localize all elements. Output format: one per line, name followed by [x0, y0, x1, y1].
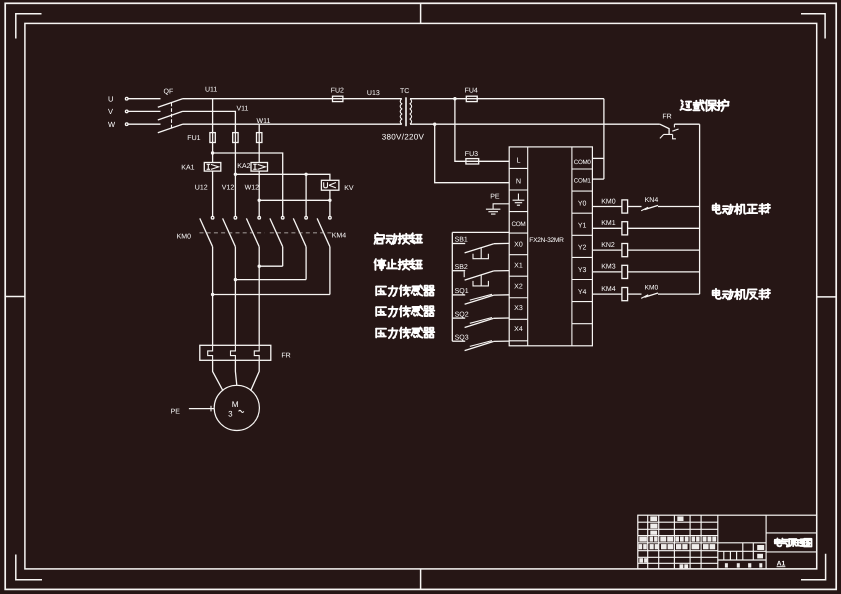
node FU3 branch [453, 97, 456, 100]
label 电动机正转 [713, 204, 770, 215]
contactor coil KN2 [622, 244, 628, 257]
svg-text:PE: PE [171, 408, 181, 415]
node KM4 pole2 tap [304, 173, 307, 176]
svg-text:COM1: COM1 [574, 177, 592, 184]
current relay KA1 [204, 163, 221, 172]
output bus vertical [699, 124, 701, 294]
svg-text:X1: X1 [514, 263, 523, 270]
svg-text:Y4: Y4 [578, 289, 587, 296]
label 压力传感器 [376, 328, 434, 339]
svg-text:SB2: SB2 [455, 264, 468, 271]
NC contact KM0 (interlock on Y4) [628, 293, 642, 295]
wire Y0 output [592, 206, 622, 208]
wire KM4 pole2 down [305, 247, 307, 280]
svg-text:V: V [108, 107, 113, 116]
fuse FU1 a [210, 133, 215, 143]
svg-text:FU3: FU3 [465, 151, 478, 158]
svg-text:Y1: Y1 [578, 223, 587, 230]
svg-text:QF: QF [164, 88, 174, 95]
svg-text:KM1: KM1 [601, 220, 616, 227]
fuse FU3 [466, 159, 479, 164]
node KV bottom [328, 199, 331, 202]
wire PE to motor [189, 408, 214, 410]
wire W to QF [128, 123, 161, 125]
wire KA2 down [258, 171, 260, 216]
svg-text:Y0: Y0 [578, 201, 587, 208]
svg-text:KN2: KN2 [601, 242, 615, 249]
wire COM to input bus [452, 231, 509, 233]
svg-text:N: N [516, 177, 521, 186]
wire W12 to KV bottom and KM4 pole 3 [259, 199, 330, 201]
svg-text:FX2N-32MR: FX2N-32MR [529, 237, 564, 244]
svg-text:KN4: KN4 [645, 197, 659, 204]
svg-text:V12: V12 [222, 184, 235, 191]
svg-text:KA1: KA1 [181, 165, 194, 172]
svg-text:M: M [232, 400, 239, 409]
svg-text:X4: X4 [514, 326, 523, 333]
label 启动按钮 [374, 233, 422, 244]
svg-text:TC: TC [400, 88, 409, 95]
svg-text:Y2: Y2 [578, 245, 587, 252]
fold mark top-left [16, 14, 42, 39]
svg-text:Y3: Y3 [578, 267, 587, 274]
NC contact KN4 (interlock on Y0) [628, 206, 642, 208]
crossover W to pole1 [259, 265, 283, 267]
centering tick right [817, 296, 837, 298]
label 压力传感器 [376, 285, 434, 296]
wire U to QF [128, 98, 161, 100]
svg-text:SQ3: SQ3 [455, 334, 469, 341]
wire U11 bus [183, 98, 402, 100]
pin earth symbol [513, 194, 525, 206]
svg-text:U12: U12 [195, 184, 208, 191]
contactor coil KM3 [622, 265, 628, 278]
svg-text:3: 3 [228, 410, 233, 419]
current relay KA2 [251, 163, 268, 172]
node N branch [433, 123, 436, 126]
title block small texts [639, 516, 765, 568]
contactor coil KM0 [622, 200, 628, 213]
wire Y4 output [592, 293, 622, 295]
label 过载保护 [680, 100, 728, 111]
svg-text:PE: PE [490, 193, 500, 200]
fold mark bottom-right [801, 554, 826, 580]
svg-text:V11: V11 [237, 106, 249, 113]
fold mark top-right [801, 14, 825, 39]
svg-text:COM: COM [511, 221, 525, 228]
PLC right terminal separators [572, 168, 593, 170]
node V supply terminal [125, 110, 128, 113]
svg-text:W: W [108, 120, 116, 129]
wire COM0 stub [592, 157, 604, 159]
crossover V to pole2 [235, 279, 306, 281]
fuse FU1 b [233, 133, 238, 143]
label 压力传感器 [376, 306, 434, 317]
svg-text:KM4: KM4 [332, 233, 347, 240]
PLC FX2N-32MR body [509, 147, 592, 346]
wire N to PLC [435, 124, 510, 183]
contactor KM4 main contacts [281, 216, 284, 219]
wire secondary N line [410, 123, 660, 125]
switch SQ1 [452, 294, 465, 296]
svg-text:KA2: KA2 [237, 163, 250, 170]
svg-text:KV: KV [344, 185, 354, 192]
node branch U12 [211, 151, 214, 154]
wire branch V12 to KM4 pole 2 and KV [235, 174, 330, 180]
fold mark bottom-left [16, 555, 42, 580]
node branch V12 [234, 173, 237, 176]
label 电动机反转 [713, 289, 770, 300]
voltage relay KV [321, 180, 339, 190]
svg-text:KM3: KM3 [601, 264, 616, 271]
KM0 linkage [200, 232, 265, 234]
wire L to PLC via FU3 [455, 99, 509, 162]
svg-text:380V/220V: 380V/220V [382, 132, 425, 141]
wire FR to motor right [251, 360, 260, 391]
fuse FU1 c [257, 133, 262, 143]
wire FR to output bus [674, 123, 699, 125]
svg-text:W12: W12 [245, 184, 260, 191]
KM4 linkage [270, 232, 335, 234]
centering tick left [5, 296, 25, 298]
title 电气原理图 [775, 538, 812, 546]
wire KM4 pole1 down [282, 247, 284, 267]
svg-text:SQ1: SQ1 [455, 288, 469, 295]
centering tick bottom [420, 569, 422, 590]
wire KM4 pole 3 drop [329, 200, 331, 216]
thermal overload relay FR [200, 345, 271, 360]
wire W11 bus [183, 123, 402, 125]
svg-text:X2: X2 [514, 284, 523, 291]
svg-text:FR: FR [662, 113, 671, 120]
svg-text:L: L [516, 156, 520, 165]
wire KM0 pole2 down [234, 247, 236, 346]
wire V11 [183, 111, 236, 132]
ground PE [486, 204, 509, 214]
svg-text:FU4: FU4 [465, 88, 478, 95]
svg-text:X3: X3 [514, 305, 523, 312]
label 停止按钮 [374, 259, 422, 270]
input bus [451, 232, 453, 341]
title block grid [638, 515, 817, 569]
svg-text:U13: U13 [367, 90, 380, 97]
fuse FU2 [333, 96, 343, 101]
svg-text:SQ2: SQ2 [455, 311, 469, 318]
svg-text:SB1: SB1 [455, 237, 468, 244]
wire W11 drop [258, 124, 260, 162]
wire Y1 output [592, 227, 622, 229]
wire KA1 to KM0 pole 1 [212, 171, 214, 216]
wire KM0 pole1 down [212, 247, 214, 346]
svg-text:COM0: COM0 [574, 159, 592, 166]
wire secondary L line [410, 98, 604, 100]
wire U11 drop [212, 99, 214, 163]
svg-text:U: U [108, 94, 113, 103]
wire V to QF [128, 110, 161, 112]
wire V12 drop [234, 133, 236, 217]
svg-text:X0: X0 [514, 242, 523, 249]
svg-text:W11: W11 [257, 118, 271, 125]
wire KM4 pole3 down [329, 247, 331, 295]
circuit breaker QF [158, 99, 183, 108]
contactor coil KM1 [622, 222, 628, 235]
wire L drop to COM0/COM1 [603, 99, 605, 179]
svg-text:KM0: KM0 [177, 234, 192, 241]
svg-text:KM0: KM0 [645, 285, 659, 292]
svg-text:KM4: KM4 [601, 286, 616, 293]
wire Y2 output [592, 249, 622, 251]
PLC left terminal separators [509, 167, 528, 169]
switch SB2 [452, 270, 465, 272]
crossover U to pole3 [213, 294, 330, 296]
title block frame [638, 515, 817, 569]
contactor coil KM4 [622, 288, 628, 301]
wire branch to KM4 pole 1 [213, 153, 283, 216]
node W supply terminal [125, 123, 128, 126]
centering tick top [420, 3, 422, 23]
wire FR to motor mid [235, 360, 236, 385]
contactor KM0 main contacts [211, 216, 214, 219]
wire KM0 pole3 down [258, 247, 260, 346]
switch SQ2 [452, 317, 465, 319]
wire FR to motor left [213, 360, 223, 391]
fuse FU4 [466, 96, 477, 101]
svg-text:KM0: KM0 [601, 198, 616, 205]
thermal contact FR (NC) [660, 124, 669, 134]
switch SQ3 [452, 340, 465, 342]
svg-text:FU1: FU1 [187, 135, 200, 142]
svg-text:FR: FR [281, 352, 290, 359]
motor M [214, 385, 259, 430]
wire COM1 stub [592, 178, 604, 180]
svg-text:FU2: FU2 [331, 88, 344, 95]
wire Y3 output [592, 271, 622, 273]
wire tap to KM4 pole 2 [305, 174, 307, 216]
switch SB1 [452, 243, 465, 245]
node U supply terminal [125, 97, 128, 100]
node W12 lower tap [258, 199, 261, 202]
svg-text:U11: U11 [205, 87, 217, 94]
